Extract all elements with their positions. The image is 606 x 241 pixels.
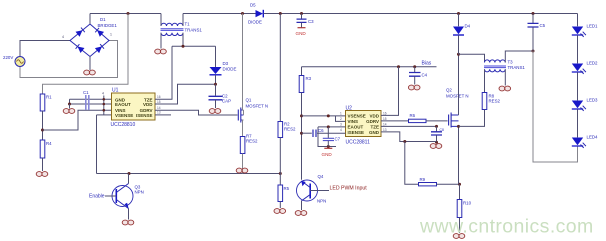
svg-text:DIODE: DIODE bbox=[248, 20, 262, 25]
svg-text:GND: GND bbox=[369, 130, 380, 135]
ground earth left of U1 bbox=[63, 109, 75, 114]
svg-text:4: 4 bbox=[340, 128, 342, 132]
diode D4 bbox=[453, 14, 471, 55]
svg-text:4: 4 bbox=[62, 35, 64, 39]
svg-text:T3: T3 bbox=[508, 60, 514, 65]
wire R1 to junction bbox=[41, 111, 44, 140]
wire Q1 source to R7 bbox=[243, 120, 244, 137]
ground earth below R4 bbox=[36, 172, 48, 177]
resistor R1 bbox=[40, 94, 52, 111]
ground earth below T1 bbox=[155, 49, 167, 54]
svg-text:Q4: Q4 bbox=[318, 174, 324, 179]
wire bridge + output to top rail bbox=[89, 14, 91, 25]
svg-text:NPN: NPN bbox=[317, 199, 326, 204]
resistor R5 bbox=[278, 174, 290, 202]
wire R3 down to Q4 bbox=[300, 93, 303, 180]
diode D3 bbox=[210, 46, 237, 84]
svg-text:C3: C3 bbox=[308, 19, 314, 24]
svg-text:RES2: RES2 bbox=[489, 99, 501, 104]
LED D7 LED2 bbox=[572, 61, 598, 74]
wire U2 GND pin path bbox=[381, 132, 437, 143]
svg-text:BRIDGE1: BRIDGE1 bbox=[98, 23, 118, 28]
wire EAOUT filter loop bbox=[318, 127, 336, 148]
wire long ground net rail bbox=[97, 172, 282, 175]
svg-text:R10: R10 bbox=[463, 201, 472, 206]
wire LED2 to LED3 bbox=[577, 72, 579, 100]
svg-text:LED3: LED3 bbox=[587, 98, 599, 103]
wire U1 ISENSE stub bbox=[155, 114, 171, 116]
transistor Q2 MOSFET N bbox=[446, 88, 469, 128]
wire branch down to R9 bbox=[405, 142, 419, 185]
wire stub to earth bbox=[69, 104, 71, 109]
resistor R4 bbox=[40, 140, 52, 158]
svg-text:4: 4 bbox=[102, 92, 104, 96]
svg-text:VDD: VDD bbox=[369, 114, 379, 119]
svg-text:MOSFET N: MOSFET N bbox=[246, 104, 269, 109]
svg-text:1: 1 bbox=[110, 33, 112, 37]
svg-text:D1: D1 bbox=[100, 17, 106, 22]
transformer T1 TRANS1 bbox=[161, 22, 203, 36]
transistor Q3 NPN enable bbox=[112, 184, 144, 209]
wire T1 primary leads bbox=[161, 14, 183, 27]
transistor Q4 NPN dimmer bbox=[297, 174, 327, 204]
wire bridge - output bbox=[89, 57, 91, 71]
wire top rail T1 to D5 bbox=[183, 12, 256, 15]
svg-text:GND: GND bbox=[296, 31, 307, 36]
svg-text:RES2: RES2 bbox=[284, 127, 296, 132]
svg-text:15: 15 bbox=[157, 100, 161, 104]
wire LED return rail bbox=[533, 51, 578, 162]
wire U1 EAOUT pin bbox=[68, 99, 112, 105]
svg-text:D5: D5 bbox=[250, 3, 256, 8]
wire R2 to rail junction bbox=[279, 138, 281, 174]
wire U2 GDRV to R6 bbox=[381, 113, 416, 121]
svg-text:UCC28811: UCC28811 bbox=[346, 140, 371, 146]
resistor R2 bbox=[278, 122, 296, 138]
svg-text:Enable: Enable bbox=[89, 194, 105, 200]
bridge rectifier D1 BRIDGE1 bbox=[70, 17, 117, 57]
LED D8 LED3 bbox=[572, 98, 598, 111]
svg-text:14: 14 bbox=[157, 106, 161, 110]
wire U1 GND pin bbox=[70, 98, 112, 100]
wire secondary top rail bbox=[459, 54, 485, 62]
wire Q4 emitter to earth bbox=[301, 201, 303, 210]
svg-text:TRANS1: TRANS1 bbox=[185, 28, 203, 33]
svg-text:D4: D4 bbox=[465, 24, 471, 29]
capacitor C6 bbox=[302, 128, 346, 137]
wire R10 to earth bbox=[459, 218, 461, 234]
wire gray sense riser to R1 bbox=[43, 14, 129, 95]
power ground GND below U2 filter bbox=[322, 148, 333, 157]
svg-text:LED1: LED1 bbox=[587, 24, 599, 29]
resistor R10 bbox=[457, 184, 471, 217]
wire Bias rail bbox=[302, 65, 437, 68]
svg-text:R1: R1 bbox=[46, 95, 52, 100]
svg-text:D3: D3 bbox=[223, 61, 229, 66]
svg-text:C4: C4 bbox=[422, 73, 428, 78]
wire R9 to sense node bbox=[437, 183, 462, 186]
wire VSENSE riser down bbox=[96, 115, 98, 174]
svg-text:GDRV: GDRV bbox=[366, 119, 379, 124]
capacitor C7 bbox=[323, 127, 341, 147]
wire R5 to earth bbox=[279, 202, 281, 209]
svg-text:RES2: RES2 bbox=[246, 139, 258, 144]
svg-text:2: 2 bbox=[340, 117, 342, 121]
svg-text:T1: T1 bbox=[185, 22, 191, 27]
svg-text:TRANS1: TRANS1 bbox=[508, 65, 526, 70]
svg-text:VSENSE: VSENSE bbox=[348, 114, 366, 119]
pin numbers U2 left bbox=[340, 112, 342, 133]
svg-text:VSENSE: VSENSE bbox=[115, 113, 133, 118]
svg-text:NPN: NPN bbox=[135, 190, 144, 195]
wire VINS branch to U1 bbox=[43, 110, 112, 130]
capacitor C2 bbox=[209, 84, 232, 108]
ground earth below R5 bbox=[274, 209, 286, 214]
svg-text:VDD: VDD bbox=[143, 102, 153, 107]
wire gray main bus x242 drain bbox=[243, 14, 244, 116]
op-amp U1 UCC28810 controller bbox=[111, 88, 156, 128]
wire T3 output to C5 node bbox=[505, 50, 534, 63]
wire U1 VSENSE pin bbox=[97, 114, 112, 116]
svg-text:U1: U1 bbox=[112, 88, 119, 94]
capacitor C5 bbox=[528, 14, 546, 52]
capacitor C1 bbox=[83, 90, 89, 110]
capacitor C3 bbox=[297, 14, 315, 28]
pin numbers U2 right bbox=[383, 112, 387, 133]
svg-text:R5: R5 bbox=[284, 186, 290, 191]
ground earth below Q4 bbox=[295, 211, 307, 216]
wire U2 VINS jog bbox=[336, 116, 346, 122]
node Enable bbox=[89, 194, 116, 200]
svg-text:ISENSE: ISENSE bbox=[136, 113, 153, 118]
svg-text:MOSFET N: MOSFET N bbox=[446, 94, 469, 99]
wire U2 VSENSE pin bbox=[302, 114, 346, 117]
wire LED3 to LED4 bbox=[577, 109, 579, 137]
pin numbers U1 right bbox=[157, 95, 161, 115]
ground earth on rail below R7 bbox=[236, 168, 248, 173]
ground earth below R10 bbox=[453, 234, 465, 239]
ground earth below C4 bbox=[408, 85, 420, 90]
wire U2 TZE sense line bbox=[381, 125, 438, 128]
AC source V1 220V bbox=[3, 55, 25, 67]
svg-text:Q1: Q1 bbox=[246, 98, 252, 103]
svg-text:3: 3 bbox=[340, 123, 342, 127]
ground earth below C2 bbox=[209, 109, 221, 114]
wire R8 to source sense bbox=[459, 110, 485, 127]
op-amp U2 UCC28811 controller bbox=[346, 106, 382, 146]
svg-text:C5: C5 bbox=[540, 23, 546, 28]
wire Q3 collector bbox=[128, 174, 130, 184]
wire T1 secondary left to earth bbox=[160, 33, 162, 49]
wire Q3 emitter to earth bbox=[128, 209, 130, 220]
node junction VDD / D3 / C2 bbox=[214, 83, 217, 86]
ground earth below Q3 bbox=[122, 220, 134, 225]
wire R7 to rail bbox=[242, 154, 244, 174]
svg-text:C7: C7 bbox=[335, 137, 341, 142]
ground earth below bridge bbox=[84, 70, 96, 75]
resistor R9 bbox=[419, 177, 437, 186]
svg-text:R9: R9 bbox=[420, 177, 426, 182]
LED D9 LED4 bbox=[572, 135, 598, 148]
svg-text:EAOUT: EAOUT bbox=[348, 125, 364, 130]
wire U2 VDD riser to Bias bbox=[381, 67, 399, 116]
svg-text:DIODE: DIODE bbox=[223, 67, 237, 72]
svg-text:www.cntronics.com: www.cntronics.com bbox=[419, 216, 594, 238]
wire U1 VDD pin to D3 node bbox=[155, 84, 216, 104]
svg-text:LED2: LED2 bbox=[587, 61, 599, 66]
capacitor C8 bbox=[431, 126, 444, 143]
svg-text:Q2: Q2 bbox=[446, 88, 452, 93]
wire R2 feed from top rail bbox=[279, 14, 281, 122]
wire T3 bottom left to R8 bbox=[484, 69, 486, 92]
node junction top rail x128 bbox=[127, 12, 130, 15]
wire Q2 source node bbox=[457, 125, 460, 184]
power ground GND below C3 bbox=[296, 28, 307, 36]
wire AC line top loop bbox=[20, 35, 70, 56]
resistor R6 bbox=[409, 119, 427, 122]
svg-text:ISENSE: ISENSE bbox=[348, 130, 365, 135]
wire R4 to earth bbox=[42, 158, 44, 171]
svg-text:13: 13 bbox=[157, 111, 161, 115]
diode D5 bbox=[248, 3, 263, 25]
resistor R7 bbox=[240, 134, 258, 154]
transistor Q1 MOSFET N bbox=[238, 98, 268, 123]
wire U1 TZE pin riser bbox=[155, 46, 172, 99]
svg-text:TZE: TZE bbox=[371, 125, 380, 130]
svg-text:C1: C1 bbox=[83, 90, 89, 95]
svg-text:220V: 220V bbox=[3, 55, 13, 60]
wire Q2 drain riser bbox=[457, 53, 460, 115]
resistor R3 bbox=[299, 67, 311, 93]
transformer T3 TRANS1 bbox=[484, 60, 525, 72]
svg-text:VINS: VINS bbox=[348, 119, 359, 124]
node LED PWM Input bbox=[310, 186, 367, 192]
svg-text:1: 1 bbox=[340, 112, 342, 116]
wire pin tick bus x103.8 bbox=[102, 92, 105, 116]
wire U1 GDRV pin to Q1 gate bbox=[155, 110, 238, 115]
svg-text:R6: R6 bbox=[410, 113, 416, 118]
wire AC neutral bottom loop bbox=[20, 33, 118, 78]
wire top rail left segment bbox=[90, 13, 161, 15]
ground earth below C8 bbox=[430, 144, 442, 149]
LED D6 LED1 bbox=[572, 14, 598, 37]
svg-text:LED PWM Input: LED PWM Input bbox=[330, 186, 368, 192]
svg-text:R3: R3 bbox=[306, 76, 312, 81]
wire T3 bottom right to earth bbox=[504, 69, 506, 85]
svg-text:R4: R4 bbox=[46, 141, 52, 146]
svg-text:CAP: CAP bbox=[222, 99, 231, 104]
node Bias label bbox=[422, 61, 432, 67]
svg-text:C6: C6 bbox=[318, 128, 324, 133]
svg-text:EAOUT: EAOUT bbox=[115, 102, 131, 107]
ground earth below T3 bbox=[499, 86, 511, 91]
svg-text:GND: GND bbox=[322, 152, 333, 157]
wire top rail D5 to LED corner bbox=[264, 12, 578, 15]
resistor R8 bbox=[482, 93, 500, 110]
svg-text:Bias: Bias bbox=[422, 61, 432, 67]
wire U2 EAOUT pin bbox=[318, 125, 346, 128]
svg-text:16: 16 bbox=[157, 95, 161, 99]
wire R6 to Q2 gate bbox=[426, 120, 448, 122]
wire LED1 to LED2 bbox=[577, 35, 579, 63]
watermark bbox=[419, 216, 594, 238]
wire T1 secondary right to TZE/D3 net bbox=[172, 33, 216, 48]
capacitor C4 bbox=[409, 67, 428, 85]
svg-text:U2: U2 bbox=[346, 106, 353, 112]
svg-text:UCC28810: UCC28810 bbox=[111, 122, 136, 128]
svg-text:LED4: LED4 bbox=[587, 135, 599, 140]
